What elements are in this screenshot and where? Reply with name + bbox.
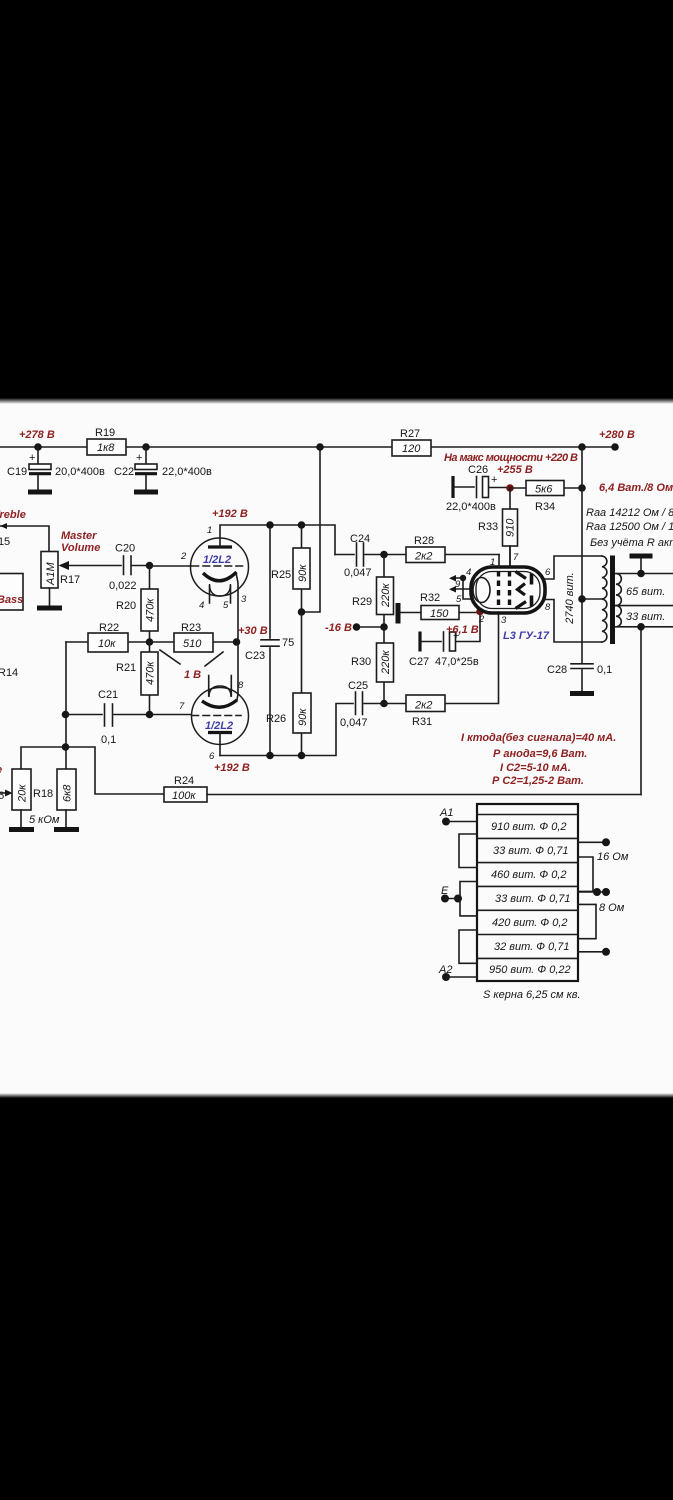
pin labels V1b bbox=[179, 680, 244, 762]
svg-text:9: 9 bbox=[455, 579, 461, 590]
svg-text:R33: R33 bbox=[478, 521, 498, 533]
resistor 6к8 bbox=[29, 747, 76, 827]
svg-text:22,0*400в: 22,0*400в bbox=[162, 466, 212, 478]
net label +255 В bbox=[497, 464, 533, 476]
ground under 6к8 bbox=[54, 827, 79, 832]
svg-text:420 вит. Ф 0,2: 420 вит. Ф 0,2 bbox=[492, 917, 568, 929]
svg-text:C20: C20 bbox=[115, 543, 135, 555]
label R14 (cut) bbox=[0, 667, 18, 679]
node center feed junction bbox=[316, 443, 324, 451]
svg-text:910: 910 bbox=[505, 518, 517, 537]
wire center tap bbox=[582, 598, 602, 600]
svg-text:1/2L2: 1/2L2 bbox=[203, 554, 231, 566]
svg-text:C19: C19 bbox=[7, 466, 27, 478]
triode V1b 1/2L2 bbox=[192, 642, 249, 756]
net label +192 В (V1a) bbox=[212, 508, 248, 520]
svg-text:5к6: 5к6 bbox=[535, 484, 553, 496]
wire secondary bottom / feedback bbox=[616, 623, 673, 795]
jumper left 1 bbox=[459, 834, 477, 868]
potentiometer R17 A1M bbox=[41, 552, 121, 589]
svg-text:3: 3 bbox=[241, 594, 247, 605]
net label +30 В bbox=[238, 625, 268, 637]
node R20/R21/R22/R23 bbox=[146, 638, 154, 646]
node C25/R30/R31 bbox=[380, 700, 388, 708]
transformer core bbox=[610, 556, 615, 645]
label e (cut) bbox=[0, 764, 2, 776]
capacitor C22 bbox=[114, 447, 212, 490]
svg-text:220к: 220к bbox=[380, 650, 392, 675]
svg-text:16 Ом: 16 Ом bbox=[597, 851, 629, 863]
svg-text:R28: R28 bbox=[414, 535, 434, 547]
svg-text:20к: 20к bbox=[17, 784, 29, 803]
resistor R19 bbox=[87, 427, 126, 455]
svg-text:R19: R19 bbox=[95, 427, 115, 439]
node anode V1b / C23 bbox=[266, 752, 274, 760]
node C21 left bbox=[62, 711, 70, 719]
note Raa 12500 bbox=[586, 521, 673, 533]
node transformer feed junction bbox=[578, 443, 586, 451]
node +280V terminal bbox=[611, 443, 619, 451]
terminal A2 bbox=[438, 964, 477, 981]
svg-text:6: 6 bbox=[209, 751, 215, 762]
capacitor C27 bbox=[409, 613, 480, 669]
jumper right 2 bbox=[578, 904, 596, 938]
svg-text:R18: R18 bbox=[33, 788, 53, 800]
svg-text:-16 В: -16 В bbox=[325, 622, 352, 634]
svg-text:Master: Master bbox=[61, 530, 97, 542]
svg-text:10к: 10к bbox=[98, 638, 116, 650]
wire anode V1b node bbox=[220, 704, 353, 756]
svg-text:+: + bbox=[136, 452, 142, 464]
svg-text:I С2=5-10 мА.: I С2=5-10 мА. bbox=[500, 762, 571, 774]
svg-text:950 вит. Ф 0,22: 950 вит. Ф 0,22 bbox=[489, 964, 571, 976]
svg-text:65 вит.: 65 вит. bbox=[626, 586, 665, 598]
resistor R23 bbox=[150, 622, 237, 652]
resistor R20 bbox=[116, 566, 158, 643]
svg-text:Bass: Bass bbox=[0, 594, 23, 606]
wire secondary tap bbox=[616, 605, 673, 607]
svg-text:90к: 90к bbox=[297, 708, 309, 726]
net label -16 В bbox=[325, 622, 352, 634]
label L3 ГУ-17 bbox=[503, 630, 550, 642]
svg-text:33 вит. Ф 0,71: 33 вит. Ф 0,71 bbox=[493, 845, 569, 857]
pin 6 wire ГУ-17 bbox=[545, 556, 602, 579]
svg-text:А1: А1 bbox=[439, 807, 453, 819]
svg-text:150: 150 bbox=[430, 608, 449, 620]
svg-text:+: + bbox=[29, 452, 35, 464]
triode V1a 1/2L2 bbox=[191, 525, 336, 642]
svg-text:R32: R32 bbox=[420, 592, 440, 604]
pin 7 wire ГУ-17 bbox=[510, 546, 519, 567]
jumper left 3 bbox=[459, 930, 477, 963]
transformer secondary 33 вит. bbox=[616, 606, 665, 627]
node -16V terminal bbox=[353, 623, 361, 631]
ground under C19 bbox=[28, 490, 52, 495]
terminal A1 bbox=[439, 807, 477, 826]
svg-text:7: 7 bbox=[513, 552, 519, 563]
transformer T1 primary winding bbox=[564, 556, 607, 642]
resistor R33 bbox=[478, 488, 518, 567]
capacitor C25 bbox=[340, 680, 384, 729]
svg-text:1: 1 bbox=[490, 557, 495, 568]
svg-text:75: 75 bbox=[282, 637, 294, 649]
svg-text:0,022: 0,022 bbox=[109, 580, 137, 592]
svg-text:6: 6 bbox=[545, 567, 551, 578]
svg-text:+278 В: +278 В bbox=[19, 429, 55, 441]
svg-text:R17: R17 bbox=[60, 574, 80, 586]
winding row 950 вит bbox=[489, 964, 571, 976]
svg-text:R34: R34 bbox=[535, 501, 555, 513]
node C21/R21 grid2 bbox=[146, 711, 154, 719]
svg-text:Без учёта R акт: Без учёта R акт bbox=[590, 537, 673, 549]
svg-text:Р анода=9,6 Ват.: Р анода=9,6 Ват. bbox=[493, 748, 587, 760]
net label +278 В bbox=[19, 429, 55, 441]
svg-text:33 вит.: 33 вит. bbox=[626, 611, 665, 623]
svg-text:A1M: A1M bbox=[45, 562, 57, 586]
pin labels V1a bbox=[180, 525, 247, 611]
node center tap bbox=[578, 595, 586, 603]
svg-text:R29: R29 bbox=[352, 596, 372, 608]
net label +6,1 В bbox=[446, 624, 479, 636]
heater arrows ГУ-17 bbox=[449, 567, 472, 605]
svg-text:+255 В: +255 В bbox=[497, 464, 533, 476]
capacitor C23 bbox=[245, 525, 294, 756]
svg-text:R27: R27 bbox=[400, 428, 420, 440]
pin 2 label bbox=[478, 614, 485, 625]
svg-text:R20: R20 bbox=[116, 600, 136, 612]
capacitor C28 bbox=[547, 664, 612, 692]
svg-text:Р С2=1,25-2 Ват.: Р С2=1,25-2 Ват. bbox=[492, 775, 584, 787]
svg-text:8: 8 bbox=[545, 602, 551, 613]
tap 16 Ом bbox=[578, 838, 629, 863]
svg-text:L3 ГУ-17: L3 ГУ-17 bbox=[503, 630, 550, 642]
note S core bbox=[483, 989, 581, 1001]
svg-text:2к2: 2к2 bbox=[414, 700, 432, 712]
winding row 33 вит a bbox=[493, 845, 569, 857]
node anode V1a / R25 bbox=[298, 521, 306, 529]
svg-text:C27: C27 bbox=[409, 656, 429, 668]
node R25/R26/B+ bbox=[298, 608, 306, 616]
winding stack frame bbox=[477, 804, 578, 981]
note Raa 14212 bbox=[586, 507, 673, 519]
note 6,4 Ват./8 Ом. bbox=[599, 482, 673, 494]
node C24/R28/R29 bbox=[380, 551, 388, 559]
svg-text:6к8: 6к8 bbox=[62, 784, 74, 802]
svg-text:+6,1 В: +6,1 В bbox=[446, 624, 479, 636]
tap 8 Ом bbox=[578, 888, 625, 914]
resistor R32 bbox=[400, 592, 480, 620]
resistor R30 bbox=[351, 627, 394, 704]
pin 8 wire ГУ-17 bbox=[545, 600, 602, 643]
svg-text:4: 4 bbox=[199, 600, 204, 611]
winding row 910 вит bbox=[491, 821, 567, 833]
svg-text:32 вит. Ф 0,71: 32 вит. Ф 0,71 bbox=[494, 941, 570, 953]
label R16 (cut) bbox=[0, 790, 4, 802]
jumper left 2 bbox=[460, 882, 477, 916]
svg-text:0,047: 0,047 bbox=[344, 567, 372, 579]
wire feedback-bias bus bbox=[65, 642, 67, 747]
ground bar for R32 bbox=[396, 603, 401, 624]
node C26/R33/R34 (red) bbox=[506, 484, 514, 492]
note Без учёта R акт bbox=[590, 537, 673, 549]
svg-text:1: 1 bbox=[207, 525, 212, 536]
svg-text:8: 8 bbox=[238, 680, 244, 691]
resistor R25 bbox=[271, 525, 310, 612]
svg-text:R23: R23 bbox=[181, 622, 201, 634]
svg-text:910 вит. Ф 0,2: 910 вит. Ф 0,2 bbox=[491, 821, 567, 833]
terminal E bbox=[441, 885, 462, 903]
svg-text:C26: C26 bbox=[468, 464, 488, 476]
svg-text:2: 2 bbox=[180, 551, 187, 562]
resistor R31 bbox=[384, 613, 499, 728]
svg-text:5 кОм: 5 кОм bbox=[29, 814, 60, 826]
wire -16V stub bbox=[357, 626, 385, 628]
svg-text:2: 2 bbox=[478, 614, 485, 625]
svg-text:е: е bbox=[0, 764, 2, 776]
block Bass (cut) bbox=[0, 574, 23, 611]
node +278V junction bbox=[34, 443, 42, 451]
svg-text:Raa 14212 Ом / 8: Raa 14212 Ом / 8 bbox=[586, 507, 673, 519]
svg-text:+280 В: +280 В bbox=[599, 429, 635, 441]
svg-text:Treble: Treble bbox=[0, 509, 26, 521]
capacitor C19 bbox=[7, 447, 105, 490]
node cathode junction V1 bbox=[233, 638, 241, 646]
capacitor C21 bbox=[66, 689, 192, 746]
svg-text:120: 120 bbox=[402, 443, 421, 455]
svg-text:C24: C24 bbox=[350, 533, 370, 545]
wire bias bus to pots bbox=[21, 747, 164, 794]
pin 1 wire ГУ-17 bbox=[490, 555, 499, 569]
svg-text:R30: R30 bbox=[351, 656, 371, 668]
svg-text:C25: C25 bbox=[348, 680, 368, 692]
svg-text:R21: R21 bbox=[116, 662, 136, 674]
svg-text:C21: C21 bbox=[98, 689, 118, 701]
svg-text:1к8: 1к8 bbox=[97, 442, 115, 454]
svg-text:470к: 470к bbox=[145, 598, 157, 622]
potentiometer R18 20к bbox=[0, 769, 31, 827]
svg-text:R26: R26 bbox=[266, 713, 286, 725]
resistor R29 bbox=[352, 555, 394, 628]
pin 3 wire ГУ-17 bbox=[501, 615, 507, 626]
ground under R18 bbox=[9, 827, 34, 832]
capacitor C20 bbox=[109, 543, 150, 593]
node R34/B+ vertical bbox=[578, 484, 586, 492]
node grid1 / C20 / R20 bbox=[146, 562, 154, 570]
svg-text:R22: R22 bbox=[99, 622, 119, 634]
winding row 460 вит bbox=[491, 869, 567, 881]
svg-text:2к2: 2к2 bbox=[414, 551, 432, 563]
svg-text:47,0*25в: 47,0*25в bbox=[435, 656, 479, 668]
svg-text:6,4 Ват./8 Ом.: 6,4 Ват./8 Ом. bbox=[599, 482, 673, 494]
node cathode ГУ-17 (red) bbox=[476, 608, 484, 616]
svg-text:R31: R31 bbox=[412, 716, 432, 728]
svg-text:16: 16 bbox=[0, 790, 4, 802]
svg-text:Raa 12500 Ом / 16: Raa 12500 Ом / 16 bbox=[586, 521, 673, 533]
resistor R34 bbox=[510, 481, 582, 514]
wire B+ to center tap and C28 bbox=[581, 447, 583, 663]
winding row 32 вит bbox=[494, 941, 570, 953]
svg-text:100к: 100к bbox=[172, 790, 196, 802]
note На макс мощности +220 В bbox=[444, 452, 578, 464]
svg-text:+30 В: +30 В bbox=[238, 625, 268, 637]
node bias bus / R18 bbox=[62, 743, 70, 751]
wire grid1 to tube V1 bbox=[150, 565, 192, 568]
node R29/R30 bbox=[380, 623, 388, 631]
svg-text:R15: R15 bbox=[0, 536, 10, 548]
net label +280 В bbox=[599, 429, 635, 441]
resistor R21 bbox=[116, 642, 158, 715]
svg-text:1 В: 1 В bbox=[184, 669, 201, 681]
svg-text:0,1: 0,1 bbox=[597, 664, 612, 676]
svg-text:33 вит. Ф 0,71: 33 вит. Ф 0,71 bbox=[495, 893, 571, 905]
svg-text:R25: R25 bbox=[271, 569, 291, 581]
svg-text:+192 В: +192 В bbox=[212, 508, 248, 520]
ground under C22 bbox=[134, 490, 158, 495]
svg-text:1/2L2: 1/2L2 bbox=[205, 720, 233, 732]
svg-text:+192 В: +192 В bbox=[214, 762, 250, 774]
svg-text:5: 5 bbox=[456, 594, 462, 605]
jumper right 1 bbox=[578, 857, 593, 891]
capacitor C26 bbox=[446, 464, 510, 513]
resistor R26 bbox=[266, 612, 311, 756]
wire main B+ rail bbox=[0, 446, 615, 448]
transformer secondary 65 вит. bbox=[616, 574, 665, 606]
svg-text:220к: 220к bbox=[380, 583, 392, 608]
resistor R22 bbox=[66, 622, 150, 652]
net label Treble (cut) bbox=[0, 509, 26, 521]
tetrode L3 ГУ-17 body bbox=[471, 567, 545, 613]
node anode V1b / R26 bbox=[298, 752, 306, 760]
ground under C28 bbox=[570, 691, 594, 696]
svg-text:C23: C23 bbox=[245, 650, 265, 662]
label Master Volume bbox=[61, 530, 100, 554]
svg-text:C22: C22 bbox=[114, 466, 134, 478]
svg-text:I ктода(без сигнала)=40 мА.: I ктода(без сигнала)=40 мА. bbox=[461, 732, 616, 744]
svg-text:90к: 90к bbox=[297, 564, 309, 582]
svg-text:2740 вит.: 2740 вит. bbox=[564, 572, 576, 624]
note 1 В with leaders bbox=[160, 650, 223, 681]
svg-text:Volume: Volume bbox=[61, 542, 100, 554]
svg-text:R14: R14 bbox=[0, 667, 18, 679]
label R15 (cut) bbox=[0, 536, 10, 548]
note bias block bbox=[461, 732, 616, 787]
ground under R17 bbox=[37, 588, 62, 608]
capacitor C24 bbox=[335, 533, 384, 579]
svg-text:8 Ом: 8 Ом bbox=[599, 902, 625, 914]
winding row 33 вит b bbox=[495, 893, 571, 905]
svg-text:C28: C28 bbox=[547, 664, 567, 676]
wire secondary top to ground bbox=[616, 573, 673, 575]
svg-text:460 вит. Ф 0,2: 460 вит. Ф 0,2 bbox=[491, 869, 567, 881]
resistor R24 bbox=[164, 775, 641, 802]
tap bottom bbox=[578, 948, 610, 956]
svg-text:510: 510 bbox=[183, 638, 202, 650]
svg-text:5: 5 bbox=[223, 600, 229, 611]
svg-text:На макс мощности +220 В: На макс мощности +220 В bbox=[444, 452, 578, 464]
svg-text:0,1: 0,1 bbox=[101, 734, 116, 746]
svg-text:20,0*400в: 20,0*400в bbox=[55, 466, 105, 478]
svg-text:22,0*400в: 22,0*400в bbox=[446, 501, 496, 513]
ground secondary bbox=[630, 556, 653, 577]
svg-text:7: 7 bbox=[179, 701, 185, 712]
winding row 420 вит bbox=[492, 917, 568, 929]
node C22 junction bbox=[142, 443, 150, 451]
svg-text:4: 4 bbox=[466, 567, 471, 578]
resistor R27 bbox=[392, 428, 431, 456]
wire B+ drop to R25/R26 midpoint bbox=[302, 447, 320, 612]
svg-text:S керна 6,25 см кв.: S керна 6,25 см кв. bbox=[483, 989, 581, 1001]
svg-text:3: 3 bbox=[501, 615, 507, 626]
resistor R28 bbox=[384, 535, 499, 563]
wire treble input to volume pot bbox=[0, 523, 49, 552]
svg-text:R24: R24 bbox=[174, 775, 194, 787]
svg-text:0,047: 0,047 bbox=[340, 717, 368, 729]
node anode V1a / C23 bbox=[266, 521, 274, 529]
svg-text:470к: 470к bbox=[145, 661, 157, 685]
net label +192 В (V1b) bbox=[214, 762, 250, 774]
